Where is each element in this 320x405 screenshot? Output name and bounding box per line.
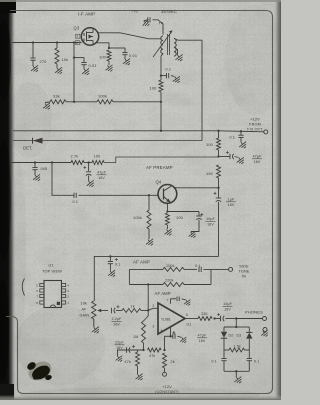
svg-text:770: 770: [131, 9, 139, 14]
node supply entry: [217, 130, 219, 132]
ground under 10k: [54, 65, 65, 75]
wire summing to pin2: [148, 308, 158, 310]
wire detector line: [13, 140, 202, 142]
capacitor 270: [30, 43, 47, 67]
node det coupling: [51, 161, 53, 163]
transistor Q4: [156, 180, 177, 204]
resistor 100k base bias: [133, 195, 151, 239]
ground under T4 secondary: [174, 52, 185, 62]
capacitor 10uF output: [215, 302, 237, 321]
node output cap: [213, 313, 220, 320]
svg-text:Q3: Q3: [74, 26, 80, 31]
svg-text:1M: 1M: [133, 335, 138, 339]
svg-text:16V: 16V: [199, 339, 206, 343]
svg-text:3575KC: 3575KC: [161, 9, 177, 14]
ground under det cap: [32, 172, 43, 182]
svg-text:T4: T4: [159, 21, 165, 26]
capacitor 770: [131, 9, 150, 23]
ground under 47uF det: [85, 178, 96, 188]
diode D3: [237, 327, 253, 344]
capacitor 0.1 supply: [230, 131, 244, 142]
wire secondary vertical: [201, 40, 203, 140]
svg-text:100: 100: [99, 55, 107, 60]
svg-text:22µF: 22µF: [115, 341, 124, 345]
capacitor 0.01 source bypass: [122, 48, 137, 59]
node summing: [147, 309, 149, 311]
node bypass tap: [73, 56, 75, 58]
svg-text:7: 7: [167, 299, 169, 303]
node Q4 base: [148, 194, 150, 196]
wire bias row: [120, 349, 144, 351]
ground at 770 cap: [141, 17, 152, 28]
wire gate row: [12, 42, 82, 44]
scan right edge: [274, 0, 281, 400]
ground clipper: [233, 374, 244, 384]
transformer T4: [153, 21, 176, 58]
label AF AMP section: [133, 260, 150, 265]
svg-text:0.1: 0.1: [212, 360, 217, 364]
node supply mid: [217, 155, 219, 157]
resistor 1k input: [122, 305, 141, 313]
capacitor 0.1 rail bypass: [108, 256, 121, 270]
label PHONES: [245, 310, 263, 315]
wire T4 primary bottom: [161, 54, 163, 76]
ground at 33k: [42, 101, 53, 111]
wire sidetone bottom row: [129, 284, 163, 286]
svg-text:U1: U1: [187, 323, 192, 327]
wire Q3 source: [96, 43, 111, 49]
capacitor 2.2uF: [112, 305, 123, 326]
capacitor 10uF emitter: [191, 212, 216, 232]
node supply 0.1 tap: [240, 130, 242, 132]
svg-text:GAIN: GAIN: [80, 314, 90, 318]
svg-text:TOP VIEW: TOP VIEW: [42, 269, 62, 274]
wire IF cathode vertical: [160, 102, 162, 132]
wire to phones: [236, 318, 262, 320]
resistor 10k: [55, 43, 68, 69]
wire clipper bottom: [224, 370, 249, 377]
scan top edge: [0, 0, 281, 2]
svg-text:330: 330: [201, 312, 208, 316]
wire T4 secondary bottom: [174, 47, 178, 55]
wire gate2 bias vertical: [73, 41, 75, 101]
svg-text:1.5k: 1.5k: [234, 345, 241, 349]
ground under supply 0.1: [238, 140, 249, 150]
wire sidetone mid: [184, 268, 197, 270]
terminal phones tip: [263, 317, 267, 321]
svg-text:2: 2: [76, 41, 78, 45]
wire Q4 emitter: [166, 203, 168, 212]
node filter tap: [87, 161, 89, 163]
ground under emitter res: [163, 227, 174, 237]
svg-text:DET.: DET.: [23, 146, 32, 151]
node divider tap: [73, 101, 75, 103]
ground under 10uF: [187, 229, 198, 239]
svg-text:0.1: 0.1: [115, 263, 120, 267]
label +12V CONSTANT: [155, 385, 178, 394]
resistor 100 primary: [150, 76, 164, 102]
node det cap: [34, 161, 36, 163]
transistor Q3 dual-gate MOSFET: [74, 26, 99, 46]
wire 2.7k-100: [84, 162, 92, 164]
svg-text:0.01: 0.01: [89, 63, 97, 68]
svg-text:U1: U1: [49, 263, 54, 268]
svg-text:0.1: 0.1: [73, 200, 79, 204]
wire T4 primary top: [153, 20, 164, 35]
pin 2 label: [153, 304, 155, 308]
node bias row right: [163, 349, 165, 351]
svg-text:100k: 100k: [166, 264, 175, 268]
svg-text:0.1: 0.1: [254, 360, 259, 364]
wire sidetone right bracket: [210, 269, 212, 284]
svg-text:16V: 16V: [98, 176, 105, 180]
resistor 100 filter: [92, 154, 104, 165]
svg-text:47µF: 47µF: [253, 155, 263, 159]
svg-text:+12V: +12V: [162, 385, 172, 389]
ground at 0.1 plate cap: [171, 74, 182, 84]
ground under source 0.01: [121, 56, 132, 66]
svg-text:33k: 33k: [53, 94, 60, 99]
wire 22uF to ground: [118, 350, 120, 356]
svg-text:16V: 16V: [228, 203, 235, 207]
svg-text:10k: 10k: [62, 57, 69, 62]
svg-text:0.1: 0.1: [230, 136, 236, 140]
capacitor 47uF det filter: [83, 163, 106, 182]
diode D2: [221, 327, 233, 344]
ground under source res: [104, 63, 115, 73]
wire 100k to rail: [113, 101, 161, 103]
node primary-bottom junction: [160, 74, 162, 76]
resistor 220k feedback: [163, 279, 184, 287]
pot wiper arrow: [97, 309, 108, 312]
svg-text:3: 3: [153, 325, 155, 329]
section label I-F AMP: [78, 12, 95, 17]
svg-text:47k: 47k: [149, 354, 155, 358]
resistor 100 supply: [206, 131, 221, 157]
pin 6 label: [186, 313, 188, 317]
svg-text:AF AMP: AF AMP: [133, 260, 150, 265]
ground under rail bypass: [107, 268, 118, 278]
svg-text:0.1: 0.1: [166, 68, 172, 72]
scan dark bar left edge: [0, 0, 16, 400]
wire 1k to summing node: [141, 310, 148, 312]
svg-text:16V: 16V: [116, 346, 123, 350]
label SIDE TONE IN: [238, 264, 249, 278]
svg-text:220k: 220k: [165, 279, 174, 283]
wire supply rail: [13, 130, 219, 132]
wire sidetone bracket: [128, 269, 130, 284]
svg-text:10k: 10k: [81, 302, 87, 306]
svg-text:SIDE: SIDE: [239, 264, 249, 268]
wire coupling to base: [78, 194, 157, 196]
label +12V FROM T-R CKT: [247, 118, 264, 132]
svg-text:100: 100: [176, 215, 184, 220]
capacitor 0.1 clipper left: [212, 350, 227, 371]
terminal phones sleeve: [263, 328, 267, 332]
resistor 330 output: [198, 312, 212, 321]
node bias row left: [142, 349, 144, 351]
svg-text:AF AMP: AF AMP: [155, 291, 171, 296]
svg-text:100: 100: [94, 154, 102, 159]
resistor 1M feedback: [133, 310, 148, 350]
ground under 100k bias: [145, 237, 156, 247]
resistor 33k: [45, 94, 66, 104]
svg-text:16V: 16V: [224, 307, 231, 311]
op-amp U1: [158, 303, 191, 334]
svg-text:100k: 100k: [133, 215, 142, 220]
resistor 47k bias lower: [125, 350, 140, 374]
resistor 47k bias upper: [148, 348, 162, 358]
node Q4 collector junction: [217, 187, 219, 189]
capacitor 47uF pin4: [171, 332, 208, 343]
pin 3 label: [153, 325, 155, 329]
svg-text:I-F AMP: I-F AMP: [78, 12, 95, 17]
svg-text:Q4: Q4: [156, 180, 162, 185]
terminal T-R supply: [264, 130, 268, 134]
svg-text:16V: 16V: [113, 322, 120, 326]
wire 220k to junction: [184, 284, 211, 286]
svg-text:D3: D3: [237, 334, 242, 338]
svg-text:47µF: 47µF: [97, 171, 107, 175]
svg-text:PHONES: PHONES: [245, 310, 263, 315]
terminal +12V constant: [163, 372, 167, 376]
brace pin group: [22, 279, 24, 296]
ink blot: [25, 358, 54, 384]
svg-text:2k: 2k: [171, 360, 175, 364]
svg-text:10µF: 10µF: [206, 217, 216, 221]
svg-text:0.1: 0.1: [195, 264, 201, 268]
node gate-res 10k: [56, 41, 58, 43]
label U1 TOP VIEW: [42, 263, 62, 274]
capacitor .005 det: [32, 163, 47, 176]
svg-text:.005: .005: [40, 167, 48, 171]
svg-text:150: 150: [206, 171, 214, 176]
svg-text:2.7k: 2.7k: [71, 154, 79, 159]
wire detector output: [11, 162, 71, 164]
resistor 100 source: [99, 50, 111, 65]
ground at 22uF: [114, 354, 124, 364]
svg-text:10µF: 10µF: [223, 302, 233, 306]
wire divider: [66, 101, 97, 103]
pin label G2: [76, 41, 80, 45]
label AF PREAMP: [146, 165, 173, 170]
ground under 0.01 bypass: [81, 66, 92, 76]
capacitor 22uF bias: [115, 341, 135, 353]
svg-text:AF: AF: [82, 308, 88, 312]
resistor 2k supply: [163, 353, 175, 372]
svg-text:FROM: FROM: [249, 123, 261, 127]
resistor 100 emitter: [165, 213, 183, 229]
label 3575KC: [161, 9, 177, 14]
capacitor 47uF supply: [219, 151, 263, 164]
pin 7 stub: [167, 299, 171, 304]
svg-text:D2: D2: [229, 334, 234, 338]
capacitor 0.1 coupling: [73, 193, 79, 204]
resistor 100k: [97, 93, 113, 104]
svg-text:3: 3: [76, 35, 78, 39]
ground under 270 cap: [30, 63, 41, 73]
svg-text:TONE: TONE: [238, 270, 249, 274]
svg-text:2.2µF: 2.2µF: [112, 317, 122, 321]
node rail bypass: [109, 255, 111, 257]
wire to supply terminal: [219, 131, 264, 132]
scan bottom edge: [0, 395, 281, 400]
resistor 1.5k clipper: [224, 344, 249, 352]
terminal side tone in: [229, 267, 233, 271]
ground at pin4 cap: [179, 335, 189, 344]
wire clipper top: [224, 319, 249, 329]
svg-text:100: 100: [150, 86, 158, 91]
wire sidetone to terminal: [203, 268, 228, 270]
svg-text:(CONSTANT): (CONSTANT): [155, 390, 178, 394]
svg-text:1k: 1k: [131, 305, 135, 309]
svg-text:TL081: TL081: [161, 317, 171, 321]
svg-text:1µF: 1µF: [228, 198, 235, 202]
svg-text:IN: IN: [242, 275, 246, 279]
node pin4: [169, 335, 171, 337]
wire bias to pin4: [165, 336, 171, 350]
label DET.: [23, 146, 32, 151]
svg-text:+12V: +12V: [250, 118, 260, 122]
pin 4 stub: [171, 328, 175, 337]
svg-text:2: 2: [153, 304, 155, 308]
svg-text:0.01: 0.01: [129, 53, 137, 58]
svg-text:47µF: 47µF: [198, 334, 207, 338]
svg-text:100k: 100k: [98, 93, 107, 98]
capacitor 1uF coupling: [214, 188, 236, 257]
ground at phones sleeve: [260, 328, 270, 338]
wire sidetone top row: [129, 268, 163, 270]
schematic border frame: [6, 11, 273, 394]
ground under 47k lower: [134, 372, 145, 382]
node phones junction: [235, 317, 237, 319]
svg-text:100: 100: [206, 142, 214, 147]
svg-text:AF PREAMP: AF PREAMP: [146, 165, 173, 170]
diode detector: [33, 138, 43, 144]
resistor 150 supply: [206, 165, 221, 188]
svg-text:47k: 47k: [125, 360, 131, 364]
resistor 2.7k: [71, 154, 85, 165]
potentiometer 10k AF GAIN: [80, 301, 97, 327]
wire emitter to 10uF: [167, 211, 199, 213]
capacitor 0.1 plate bypass: [161, 68, 175, 79]
svg-text:16V: 16V: [207, 222, 214, 226]
resistor 100k sidetone: [163, 264, 184, 271]
svg-text:6: 6: [186, 313, 188, 317]
label AF AMP opamp: [155, 291, 171, 296]
IC U1 DIP top view: [36, 281, 69, 308]
wire opamp output: [185, 318, 198, 320]
ground under pot: [90, 325, 101, 335]
node sidetone inject: [147, 283, 149, 285]
wire af signal rail: [94, 256, 218, 301]
wire Q4 collector: [175, 187, 219, 189]
wire filter to supply: [104, 157, 219, 163]
wire source to bypass cap: [109, 47, 125, 49]
capacitor 0.1 sidetone: [195, 264, 201, 272]
pin label G1: [76, 34, 80, 38]
wire T4 secondary top: [174, 39, 202, 41]
capacitor 0.1 pin7: [171, 297, 186, 302]
capacitor 0.1 clipper right: [247, 350, 260, 371]
node 100k right: [160, 101, 162, 103]
wire det to coupling cap: [52, 163, 74, 196]
ground at pin7 cap: [183, 298, 193, 307]
svg-text:16V: 16V: [254, 160, 261, 164]
ground under supply 47uF: [235, 155, 246, 165]
svg-text:T-R CKT.: T-R CKT.: [247, 128, 264, 132]
svg-text:270: 270: [40, 59, 48, 64]
wire Q3 drain to T4: [98, 33, 162, 39]
wire inject to summing: [147, 285, 149, 311]
capacitor 0.01 gate bypass: [74, 58, 97, 69]
node gate-cap 270: [32, 41, 34, 43]
